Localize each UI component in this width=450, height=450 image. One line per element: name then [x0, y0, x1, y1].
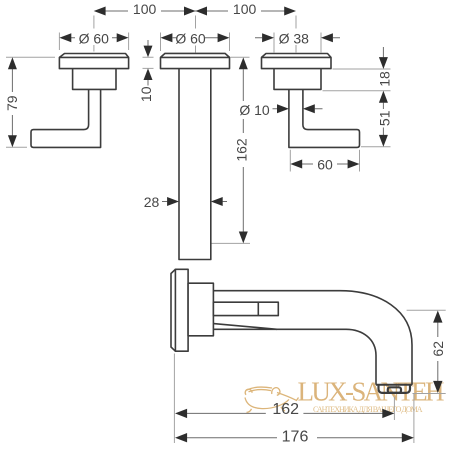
- spout underside taper line: [213, 324, 277, 330]
- ext 62 dim: [407, 310, 446, 393]
- spout tube outer edge: [213, 291, 412, 385]
- svg-text:Ø 60: Ø 60: [175, 30, 206, 46]
- dim line 79: [11, 69, 13, 136]
- arrows Ø60 left: [59, 33, 71, 42]
- svg-text:LUX-SANTEH: LUX-SANTEH: [298, 377, 446, 407]
- middle supply pipe: [179, 69, 211, 260]
- dim line 100-100: [105, 10, 285, 12]
- svg-text:162: 162: [272, 401, 299, 418]
- watermark bathtub icon: [245, 387, 299, 412]
- dim line Ø60 left: [71, 37, 117, 39]
- svg-text:162: 162: [233, 138, 249, 162]
- svg-text:Ø 38: Ø 38: [279, 30, 310, 46]
- ext 100-dim verticals: [93, 16, 95, 52]
- right handle escutcheon bevel: [262, 54, 332, 58]
- arrows 60: [290, 160, 302, 169]
- ext 10 dim ticks: [143, 57, 154, 68]
- svg-text:176: 176: [282, 429, 309, 446]
- svg-text:51: 51: [377, 110, 393, 126]
- left handle escutcheon: [59, 57, 128, 68]
- dim line Ø10 arrows tails: [273, 108, 323, 110]
- ext 162-top ticks: [212, 57, 251, 243]
- svg-text:18: 18: [377, 71, 393, 87]
- svg-text:10: 10: [138, 86, 154, 102]
- spout tip end line: [376, 384, 412, 386]
- spout wall escutcheon back bevel: [171, 269, 175, 351]
- left handle cartridge housing: [73, 69, 116, 90]
- ext left escutcheon diameter: [59, 33, 128, 51]
- ext 18/51 dim: [323, 69, 391, 147]
- ext bottom dims right: [394, 394, 414, 443]
- arrows 100-dim: [94, 7, 106, 16]
- dim line 162-top: [242, 69, 244, 231]
- aerator collar: [379, 385, 411, 393]
- dim line 162-bottom: [187, 412, 383, 414]
- spout mounting cylinder: [188, 283, 213, 336]
- right handle escutcheon: [262, 57, 332, 68]
- left handle escutcheon bevel: [59, 54, 128, 58]
- dim line 62: [437, 322, 439, 381]
- arrows Ø60 middle: [161, 33, 173, 42]
- svg-text:60: 60: [317, 157, 333, 173]
- svg-text:САНТЕХНИКА ДЛЯ ВАШЕГО ДОМА: САНТЕХНИКА ДЛЯ ВАШЕГО ДОМА: [313, 405, 423, 414]
- svg-text:28: 28: [144, 194, 160, 210]
- svg-text:100: 100: [233, 1, 257, 17]
- arrows 62: [433, 311, 442, 323]
- spout tube bottom inner edge: [213, 329, 376, 385]
- middle escutcheon: [161, 57, 230, 68]
- dim line 60: [302, 163, 348, 165]
- arrows 10-dim (outside): [144, 46, 153, 58]
- dim line 28: [162, 201, 227, 203]
- svg-text:79: 79: [4, 95, 20, 111]
- ext middle escutcheon diameter: [161, 33, 230, 52]
- svg-text:Ø 10: Ø 10: [239, 102, 270, 118]
- svg-text:100: 100: [133, 1, 157, 17]
- ext right escutcheon diameter: [274, 33, 321, 53]
- arrows 176: [175, 433, 187, 442]
- svg-text:62: 62: [430, 341, 446, 357]
- dim line Ø60 middle: [173, 37, 219, 39]
- ext 79 dim: [6, 57, 55, 147]
- arrows 18/51: [379, 57, 388, 69]
- right handle lever: [289, 89, 360, 147]
- ext bottom dims left: [173, 354, 175, 444]
- middle escutcheon bevel: [161, 53, 230, 57]
- dim line Ø38: [255, 37, 340, 39]
- arrows Ø10: [277, 104, 289, 113]
- arrows 162-bottom: [175, 409, 187, 418]
- arrows 162-top: [239, 57, 248, 69]
- spout inner supply stub: [213, 302, 278, 315]
- svg-text:Ø 60: Ø 60: [79, 30, 110, 46]
- dim line 10: [147, 40, 149, 86]
- supply stub nut divider: [257, 302, 259, 315]
- dim line 18/51: [382, 47, 384, 135]
- spout wall escutcheon face: [175, 269, 188, 351]
- right handle cartridge housing: [274, 69, 321, 90]
- arrows 79-dim: [8, 57, 17, 69]
- dim line 176: [187, 437, 402, 439]
- arrows 28: [167, 197, 179, 206]
- arrows Ø38 (outside): [262, 33, 274, 42]
- ext 60 dim: [290, 150, 359, 172]
- left handle lever: [31, 89, 101, 147]
- aerator ring: [388, 387, 401, 393]
